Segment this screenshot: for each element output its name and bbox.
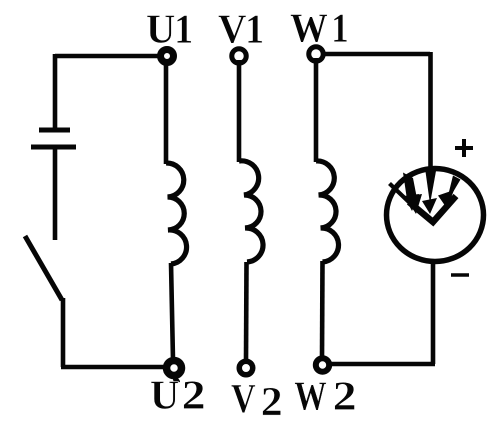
- svg-text:1: 1: [174, 6, 193, 52]
- label U2: [150, 372, 206, 418]
- label W2: [294, 373, 356, 419]
- galvanometer needle: left wedge: [403, 173, 422, 215]
- wire: top-left horizontal from battery branch to U1: [55, 54, 158, 59]
- galvanometer needle: center wedge: [422, 168, 437, 214]
- svg-text:W: W: [290, 5, 328, 51]
- terminal U1: [161, 50, 174, 63]
- label V2: [231, 376, 283, 424]
- battery GB: long bottom plate: [31, 145, 76, 150]
- svg-text:V: V: [218, 6, 246, 52]
- svg-text:2: 2: [333, 373, 357, 419]
- svg-text:2: 2: [182, 372, 206, 418]
- label V1: [218, 6, 264, 52]
- wire: galvanometer bottom down to corner: [431, 262, 436, 364]
- wire: below switch pivot down to bottom-left corner: [61, 298, 66, 367]
- wire: battery to switch fixed contact: [53, 147, 58, 240]
- wire: W1 down to coil: [314, 58, 319, 162]
- svg-text:1: 1: [245, 6, 264, 52]
- wire: coil down to U2: [171, 263, 173, 360]
- terminal V2: [239, 361, 253, 375]
- wire: right vertical down into galvanometer top: [428, 52, 433, 168]
- minus sign (-) at galvanometer bottom right: [451, 273, 469, 277]
- galvanometer V mark: [409, 196, 456, 222]
- terminal U2: [167, 361, 182, 384]
- label U1: [146, 6, 193, 52]
- svg-text:W: W: [294, 373, 326, 418]
- wire: bottom-right horizontal to W2: [330, 362, 435, 367]
- battery GB: short top plate: [39, 128, 70, 133]
- coil (winding V): [239, 161, 263, 262]
- wire: top-right horizontal W1 to galvanometer branch: [325, 52, 430, 57]
- svg-text:V: V: [231, 376, 256, 422]
- label W1: [290, 5, 349, 51]
- wire: coil down to V2: [244, 262, 249, 360]
- coil (winding W): [316, 161, 339, 262]
- plus sign (+) at galvanometer top right: [455, 139, 473, 157]
- svg-text:U: U: [150, 372, 179, 417]
- wire: left vertical from top corner down to battery: [53, 54, 58, 130]
- wire: coil down to W2: [320, 261, 325, 358]
- galvanometer needle: right wedge: [438, 176, 461, 209]
- wire: U1 down to coil: [164, 60, 169, 164]
- svg-text:U: U: [146, 6, 175, 51]
- svg-text:1: 1: [331, 6, 348, 51]
- galvanometer needle: thin diagonal with arrowhead: [390, 184, 420, 212]
- svg-text:2: 2: [261, 379, 283, 424]
- wire: bottom-left horizontal to U2: [61, 365, 166, 370]
- terminal W2: [316, 358, 329, 371]
- terminal W1: [309, 47, 324, 62]
- switch S blade (open, leaning up-left): [25, 236, 62, 300]
- coil (winding U): [166, 163, 187, 264]
- terminal V1: [232, 49, 247, 64]
- wire: V1 down to coil: [237, 60, 242, 162]
- galvanometer G body: [387, 169, 484, 262]
